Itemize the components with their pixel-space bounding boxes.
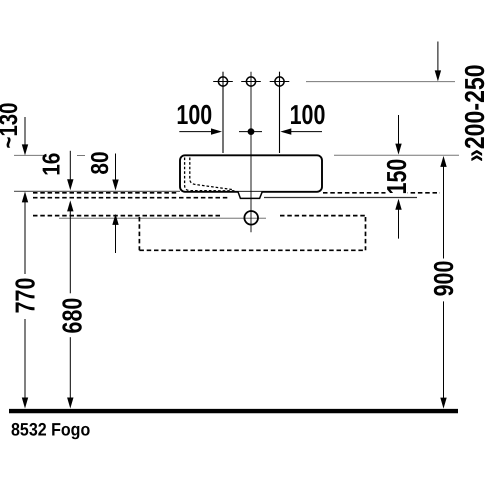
svg-text:~130: ~130: [0, 103, 23, 149]
svg-text:770: 770: [10, 278, 41, 314]
svg-text:100: 100: [176, 99, 212, 130]
svg-text:100: 100: [290, 99, 326, 130]
svg-text:80: 80: [87, 151, 114, 174]
svg-text:900: 900: [428, 261, 459, 297]
svg-text:150: 150: [381, 159, 412, 195]
svg-text:680: 680: [57, 298, 88, 334]
svg-text:16: 16: [38, 153, 65, 176]
svg-text:8532 Fogo: 8532 Fogo: [11, 419, 90, 439]
svg-text:»200-250: »200-250: [459, 64, 488, 162]
